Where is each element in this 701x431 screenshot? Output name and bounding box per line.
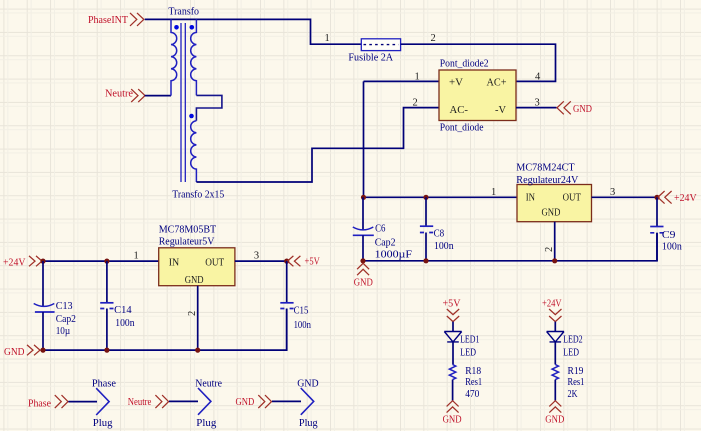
wire fuse to bridge pin 4 <box>401 44 556 81</box>
capacitor C13 curved plate <box>34 304 55 307</box>
power port GND LED2 chevrons <box>549 401 561 413</box>
bridge U pont_diode2 body <box>439 70 516 121</box>
junction dot rail/C6 <box>361 195 366 200</box>
svg-text:Transfo: Transfo <box>168 5 199 17</box>
capacitor C13 bottom lead <box>42 312 44 350</box>
junction dot C13 bottom <box>40 348 45 353</box>
svg-text:+V: +V <box>449 76 463 88</box>
power port +5V LED1 chevrons <box>447 309 459 322</box>
power port GND under C6 chevrons <box>357 263 369 275</box>
capacitor C8 bottom plate dashes <box>420 232 433 234</box>
svg-text:Plug: Plug <box>93 417 113 429</box>
svg-text:OUT: OUT <box>205 257 224 269</box>
wire Neutre plug <box>169 400 198 402</box>
wire reg24 out to +24V port <box>592 196 658 198</box>
svg-text:Neutre: Neutre <box>128 396 152 408</box>
svg-text:+24V: +24V <box>542 298 562 310</box>
port Phase plug chevrons <box>55 395 68 408</box>
svg-text:C6: C6 <box>375 222 386 234</box>
capacitor C15 bottom lead <box>286 309 288 351</box>
LED1 diode symbol <box>444 332 461 342</box>
svg-text:LED: LED <box>563 346 579 358</box>
power port GND LED1 chevrons <box>447 401 459 413</box>
svg-text:Res1: Res1 <box>568 376 585 388</box>
svg-text:+5V: +5V <box>305 256 320 268</box>
junction dot +24V port <box>654 195 659 200</box>
port +24V chevrons left <box>29 256 42 266</box>
wire R18 to GND <box>452 380 454 401</box>
svg-text:+24V: +24V <box>3 257 26 269</box>
regulator U 5V body <box>159 248 235 286</box>
capacitor C14 top plate <box>100 302 113 304</box>
transformer core lines <box>181 23 185 182</box>
capacitor C9 bottom plate dashes <box>650 232 663 234</box>
svg-text:2: 2 <box>187 311 198 316</box>
svg-text:C14: C14 <box>114 304 132 316</box>
svg-text:470: 470 <box>465 388 480 400</box>
wire LED1 to R18 <box>452 342 454 365</box>
port PhaseINT chevrons <box>130 13 144 26</box>
port GND plug chevrons <box>258 395 271 408</box>
svg-text:LED2: LED2 <box>563 334 583 346</box>
junction dot rail/C8 <box>423 195 428 200</box>
capacitor C6 curved plate <box>353 227 374 230</box>
svg-text:LED1: LED1 <box>460 334 479 346</box>
capacitor C8 top plate <box>420 225 433 227</box>
regulator U 24V body <box>517 185 592 222</box>
wire GND rail bottom left <box>41 309 287 351</box>
junction dot reg5 pin2 bottom <box>195 348 200 353</box>
regulator 5V pin 2 wire <box>197 286 199 350</box>
port +5V chevrons <box>287 256 300 266</box>
port +24V chevrons right <box>658 191 672 204</box>
svg-text:GND: GND <box>4 346 25 358</box>
wire bridge pin 1 <box>364 80 440 82</box>
capacitor C9 top plate <box>650 226 663 228</box>
capacitor C8 bottom lead <box>425 233 427 261</box>
svg-text:1: 1 <box>134 251 139 262</box>
svg-text:1: 1 <box>325 33 330 44</box>
plug J3 arrow <box>301 388 314 415</box>
fuse F1 body <box>361 39 400 51</box>
svg-text:GND: GND <box>236 396 255 408</box>
junction dot GND rail reg24 pin2 <box>552 258 557 263</box>
svg-text:Pont_diode2: Pont_diode2 <box>440 58 489 70</box>
wire R19 to GND <box>554 380 556 401</box>
svg-text:+24V: +24V <box>674 192 697 204</box>
svg-text:GND: GND <box>185 274 204 286</box>
transformer T primary winding <box>171 19 177 95</box>
capacitor C14 bottom plate dashes <box>100 308 113 310</box>
svg-text:-V: -V <box>495 104 506 116</box>
svg-text:C15: C15 <box>294 305 309 317</box>
capacitor C15 top lead <box>286 261 288 303</box>
capacitor C9 bottom lead <box>656 233 658 261</box>
wire PhaseINT to transformer primary top <box>145 18 171 20</box>
svg-text:MC78M05BT: MC78M05BT <box>159 224 217 236</box>
wire pin1 down to +24 rail <box>363 81 365 197</box>
svg-text:100n: 100n <box>662 240 682 252</box>
svg-text:C9: C9 <box>662 229 676 241</box>
wire Neutre to transformer primary bottom <box>145 95 171 97</box>
fuse dashed element <box>364 44 399 46</box>
svg-text:Neutre: Neutre <box>195 377 222 389</box>
wire GND rail right section <box>363 233 657 261</box>
svg-text:4: 4 <box>535 72 541 83</box>
capacitor C14 bottom lead <box>106 309 108 351</box>
svg-text:2: 2 <box>413 98 418 109</box>
transformer secondary winding 1 <box>191 19 197 95</box>
capacitor C13 top lead <box>42 261 44 306</box>
svg-text:C13: C13 <box>56 300 73 312</box>
svg-text:2: 2 <box>544 247 555 252</box>
svg-text:Cap2: Cap2 <box>56 313 76 325</box>
svg-text:GND: GND <box>354 278 373 289</box>
svg-text:OUT: OUT <box>563 192 582 204</box>
wire bridge pin 2 from transformer <box>196 108 439 182</box>
transformer dot secondary top <box>190 25 195 30</box>
resistor R18 zigzag <box>449 365 455 380</box>
svg-text:3: 3 <box>610 187 615 198</box>
svg-text:1000µF: 1000µF <box>375 249 412 261</box>
svg-text:+5V: +5V <box>443 298 461 310</box>
resistor R19 zigzag <box>552 365 558 380</box>
svg-text:GND: GND <box>573 103 592 115</box>
capacitor C9 top lead <box>656 197 658 226</box>
capacitor C6 bottom lead <box>362 235 364 260</box>
svg-text:Plug: Plug <box>196 417 217 429</box>
svg-text:IN: IN <box>526 192 535 204</box>
port GND chevrons right of bridge <box>557 101 571 114</box>
junction dot GND rail C6 <box>360 258 365 263</box>
transformer center tap notch <box>196 95 222 120</box>
junction dot C13 top <box>40 259 45 264</box>
capacitor C6 straight plate <box>353 234 374 236</box>
svg-text:100n: 100n <box>115 317 135 329</box>
svg-text:Regulateur24V: Regulateur24V <box>516 174 578 186</box>
wire GND plug <box>272 400 301 402</box>
wire +24V rail to reg5 IN <box>43 260 159 262</box>
svg-text:100n: 100n <box>294 319 312 331</box>
svg-text:Plug: Plug <box>299 417 318 429</box>
svg-text:2K: 2K <box>568 388 578 400</box>
svg-text:AC-: AC- <box>450 104 469 116</box>
svg-text:Transfo 2x15: Transfo 2x15 <box>172 189 224 201</box>
capacitor C6 top lead <box>362 197 364 230</box>
wire Phase plug <box>68 401 97 403</box>
port Neutre plug chevrons <box>155 395 168 408</box>
svg-text:100n: 100n <box>434 240 454 252</box>
svg-text:Regulateur5V: Regulateur5V <box>159 236 215 248</box>
svg-text:GND: GND <box>542 207 561 219</box>
svg-text:Res1: Res1 <box>465 376 482 388</box>
svg-text:MC78M24CT: MC78M24CT <box>516 162 575 174</box>
junction dot +5V port <box>284 259 289 264</box>
svg-text:1: 1 <box>491 187 496 198</box>
svg-text:2: 2 <box>431 33 436 44</box>
capacitor C8 top lead <box>425 197 427 226</box>
wire reg5 out to +5V port <box>235 260 287 262</box>
capacitor C15 top plate <box>280 302 293 304</box>
regulator 24V pin 2 wire <box>554 222 556 261</box>
wire bridge pin 3 to GND port <box>516 107 557 109</box>
transformer secondary winding 2 <box>191 121 197 182</box>
capacitor C15 bottom plate dashes <box>280 308 293 310</box>
svg-text:Phase: Phase <box>92 377 116 389</box>
svg-text:Fusible 2A: Fusible 2A <box>348 52 393 64</box>
svg-text:AC+: AC+ <box>487 76 507 88</box>
power port +24V LED2 chevrons <box>549 309 561 322</box>
svg-text:10µ: 10µ <box>56 325 70 337</box>
junction dot GND rail C8 <box>423 258 428 263</box>
svg-text:GND: GND <box>545 414 564 425</box>
junction dot C14 top <box>104 259 109 264</box>
svg-text:GND: GND <box>443 414 462 425</box>
svg-text:Phase: Phase <box>28 397 51 409</box>
plug J1 arrow <box>96 388 109 415</box>
svg-text:GND: GND <box>297 377 318 389</box>
transformer dot secondary 2 <box>189 114 194 119</box>
plug J2 arrow <box>198 388 211 415</box>
svg-text:C8: C8 <box>434 227 445 239</box>
svg-text:Cap2: Cap2 <box>375 236 396 248</box>
port GND chevrons left <box>27 345 40 355</box>
svg-text:LED: LED <box>460 346 476 358</box>
junction dot C14 bottom <box>104 348 109 353</box>
svg-text:PhaseINT: PhaseINT <box>88 14 128 26</box>
wire +5V to LED1 <box>452 322 454 332</box>
wire +24V to LED2 <box>554 322 556 332</box>
svg-text:IN: IN <box>169 257 180 269</box>
wire transformer top to fuse corner <box>171 19 361 44</box>
LED2 diode symbol <box>547 332 564 342</box>
svg-text:1: 1 <box>415 72 420 83</box>
svg-text:Pont_diode: Pont_diode <box>440 122 484 134</box>
svg-text:3: 3 <box>254 251 259 262</box>
capacitor C14 top lead <box>106 261 108 303</box>
transformer dot primary <box>174 25 179 30</box>
wire +24 rail top <box>364 196 518 198</box>
capacitor C13 straight plate <box>35 311 55 313</box>
wire LED2 to R19 <box>554 342 556 365</box>
port Neutre chevrons <box>131 89 145 102</box>
svg-text:Neutre: Neutre <box>105 88 133 100</box>
